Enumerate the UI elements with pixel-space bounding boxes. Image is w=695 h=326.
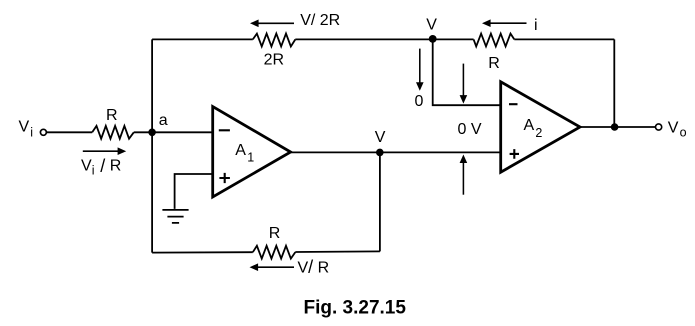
svg-text:A: A xyxy=(235,142,246,159)
node V (top junction dot) xyxy=(429,35,437,43)
op-amp A2 xyxy=(501,82,580,172)
svg-text:i: i xyxy=(534,17,538,34)
current arrow i (pointing left) xyxy=(482,19,491,27)
output node junction dot xyxy=(611,123,619,131)
A1 plus sign xyxy=(219,173,230,183)
svg-text:V: V xyxy=(19,119,30,136)
A2 plus sign xyxy=(510,149,519,159)
svg-text:V: V xyxy=(375,129,386,146)
svg-text:i: i xyxy=(30,125,33,139)
wire node V down to A2 inverting input xyxy=(433,39,501,105)
svg-text:V: V xyxy=(81,158,92,175)
svg-text:V/ R: V/ R xyxy=(298,257,330,277)
svg-text:i: i xyxy=(92,164,95,178)
current arrow Vi/R (pointing right) xyxy=(83,150,119,152)
svg-text:2R: 2R xyxy=(264,52,284,69)
resistor 2R (top feedback) xyxy=(253,34,296,47)
annotation arrow 0 current (down) xyxy=(419,49,421,84)
A2 minus sign xyxy=(509,103,518,105)
annotation arrow up to non-inverting input wire xyxy=(460,155,468,164)
resistor R (input) xyxy=(92,126,134,139)
svg-text:V: V xyxy=(426,17,437,34)
svg-text:/ R: / R xyxy=(100,156,121,176)
svg-text:2: 2 xyxy=(535,126,542,140)
svg-text:a: a xyxy=(159,112,168,129)
annotation arrow down to inverting input wire xyxy=(462,64,464,96)
wire left vertical (top rail to bottom rail) xyxy=(151,39,153,252)
svg-text:0 V: 0 V xyxy=(458,121,482,138)
wire A1 output to A2 non-inverting input xyxy=(290,151,501,153)
node V (A1 output junction dot) xyxy=(376,149,384,157)
wire node V down to bottom rail xyxy=(379,152,381,251)
wire A1 non-inverting input to ground xyxy=(175,174,213,209)
current arrow V/2R (pointing left) xyxy=(250,20,259,28)
node a (junction dot) xyxy=(148,129,156,137)
wire resistor to node a and A1 inverting input xyxy=(134,131,213,133)
A1 minus sign xyxy=(219,129,230,131)
svg-text:V: V xyxy=(668,119,679,136)
wire right vertical (top rail down to output node) xyxy=(613,39,615,127)
terminal Vi (input open circle) xyxy=(40,129,46,135)
wire top rail middle segment xyxy=(295,38,473,40)
svg-text:R: R xyxy=(106,107,118,124)
svg-text:R: R xyxy=(488,55,500,72)
current arrow V/R (pointing left) xyxy=(250,263,259,271)
svg-text:A: A xyxy=(524,117,535,134)
svg-text:V/ 2R: V/ 2R xyxy=(300,12,340,29)
svg-text:o: o xyxy=(680,126,687,140)
wire A2 output to terminal Vo xyxy=(579,126,655,128)
svg-text:R: R xyxy=(269,225,281,242)
resistor R (top right) xyxy=(474,34,515,47)
resistor R (bottom feedback) xyxy=(253,246,296,259)
ground xyxy=(162,210,188,223)
op-amp A1 xyxy=(213,107,291,197)
wire input terminal to resistor R xyxy=(47,131,92,133)
wire top rail right segment xyxy=(514,38,614,40)
terminal Vo (open circle) xyxy=(656,124,662,130)
svg-text:0: 0 xyxy=(415,93,424,110)
wire bottom rail right segment xyxy=(295,250,380,253)
svg-text:1: 1 xyxy=(247,151,254,165)
wire top rail left segment xyxy=(152,38,253,40)
wire bottom rail left segment xyxy=(152,251,253,253)
svg-text:Fig. 3.27.15: Fig. 3.27.15 xyxy=(304,298,407,319)
